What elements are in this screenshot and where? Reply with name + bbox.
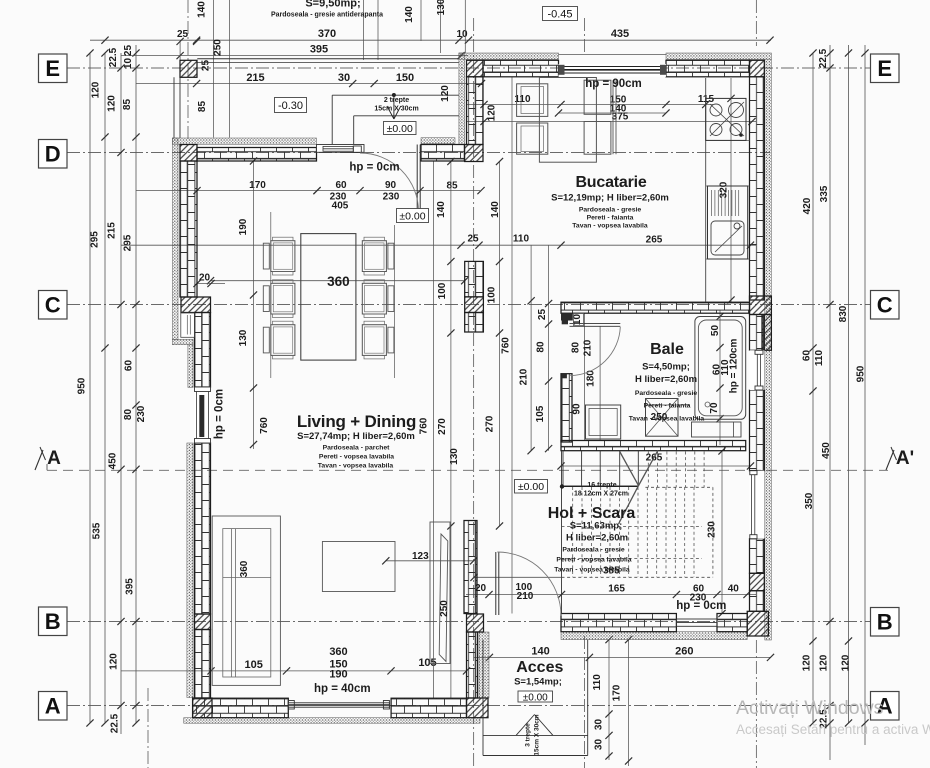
svg-text:-0.30: -0.30	[278, 100, 303, 112]
hol bottom dims 165/60/40 230	[466, 594, 756, 596]
bale cabinet below tub	[692, 422, 742, 437]
hol south wall west	[561, 614, 676, 632]
svg-text:210: 210	[519, 368, 530, 385]
left wall above B	[195, 443, 211, 614]
svg-text:150: 150	[396, 72, 414, 84]
kitchen top dims 110/150/140/375	[466, 104, 713, 106]
level marker -0.45	[543, 7, 578, 21]
grid bubble A	[39, 692, 68, 721]
svg-text:Hol + Scara: Hol + Scara	[548, 505, 636, 522]
section marker A left	[35, 450, 43, 470]
svg-text:E: E	[877, 56, 892, 81]
svg-text:140: 140	[197, 1, 208, 18]
svg-text:295: 295	[123, 234, 134, 251]
svg-text:270: 270	[485, 415, 496, 432]
level marker -0.30	[275, 98, 307, 113]
svg-text:15cm X 30cm: 15cm X 30cm	[534, 714, 541, 755]
section marker A' right	[886, 450, 894, 470]
svg-text:10: 10	[456, 29, 468, 40]
svg-text:S=27,74mp; H liber=2,60m: S=27,74mp; H liber=2,60m	[297, 431, 415, 442]
kitchen sink	[708, 186, 748, 259]
porch steps arrow 3 trepte	[516, 715, 535, 736]
svg-text:30: 30	[338, 72, 350, 84]
svg-text:hp = 90cm: hp = 90cm	[585, 78, 642, 90]
dim 385	[474, 576, 562, 578]
svg-text:120: 120	[487, 104, 498, 121]
column right-C	[750, 296, 772, 315]
svg-text:395: 395	[125, 578, 136, 595]
svg-text:C: C	[45, 293, 61, 318]
grid bubble C	[871, 291, 900, 320]
svg-text:Bale: Bale	[650, 341, 684, 358]
svg-text:215: 215	[107, 222, 118, 239]
top dim line 215/30/150	[136, 83, 482, 85]
svg-text:115: 115	[698, 94, 715, 105]
column at E grid	[180, 60, 197, 77]
svg-text:210: 210	[583, 339, 594, 356]
insulation kitchen west wall	[459, 53, 465, 145]
svg-text:25: 25	[467, 234, 479, 245]
grid bubble E	[39, 54, 68, 83]
terrace edge at E	[197, 58, 459, 60]
right wall kitchen	[750, 77, 765, 300]
svg-text:420: 420	[802, 197, 813, 214]
column left-B	[195, 614, 211, 630]
svg-text:350: 350	[804, 492, 815, 509]
top wall east of window	[666, 60, 750, 77]
insulation top wall east	[666, 53, 771, 59]
bottom dims 105/360/150/190/105	[121, 670, 467, 672]
coffee table	[322, 542, 395, 592]
column NE corner	[750, 60, 765, 77]
svg-text:100: 100	[487, 286, 498, 303]
svg-text:hp = 120cm: hp = 120cm	[729, 339, 740, 394]
column SE corner hol	[747, 611, 768, 636]
living width dim 360	[211, 280, 465, 282]
svg-text:120: 120	[109, 653, 120, 670]
svg-text:Pereti - faianta: Pereti - faianta	[644, 403, 691, 410]
svg-text:S=9,50mp;: S=9,50mp;	[305, 0, 360, 10]
svg-text:2 trepte: 2 trepte	[384, 97, 409, 104]
wc tank	[574, 313, 584, 325]
svg-text:395: 395	[310, 44, 328, 56]
svg-text:±0.00: ±0.00	[518, 481, 544, 493]
dim 123	[386, 560, 474, 562]
column kitchen-D	[465, 145, 483, 162]
column right wall lower	[750, 573, 765, 590]
svg-text:10: 10	[123, 58, 134, 70]
svg-text:230: 230	[383, 192, 400, 203]
svg-text:85: 85	[197, 101, 208, 113]
svg-text:250: 250	[439, 600, 450, 617]
svg-text:Acces: Acces	[516, 659, 563, 676]
svg-text:H liber=2,60m: H liber=2,60m	[566, 533, 628, 544]
svg-text:120: 120	[107, 95, 118, 112]
svg-text:70: 70	[709, 402, 720, 414]
acces porch outline	[482, 640, 484, 756]
svg-text:295: 295	[90, 231, 101, 248]
grid column 2	[473, 18, 475, 768]
stove	[706, 98, 746, 140]
svg-text:190: 190	[329, 669, 347, 681]
grid line C	[67, 304, 870, 306]
hol south wall east	[717, 614, 747, 632]
svg-text:25: 25	[201, 60, 212, 72]
svg-text:Pardoseala - parchet: Pardoseala - parchet	[323, 445, 391, 452]
D wall east segment	[421, 145, 464, 162]
stair dashed treads upper right	[647, 452, 649, 488]
door bale	[570, 322, 621, 324]
level marker &#177;0.00	[518, 691, 553, 702]
svg-text:A: A	[47, 448, 61, 469]
svg-text:Pardoseala - gresie: Pardoseala - gresie	[635, 390, 698, 397]
grid line E	[67, 67, 870, 69]
svg-text:Tavan - vopsea lavabila: Tavan - vopsea lavabila	[554, 567, 630, 574]
kitchen west wall	[467, 77, 484, 145]
D wall west segment	[197, 148, 317, 162]
svg-text:Accesați Setări pentru a activ: Accesați Setări pentru a activa Wi	[736, 722, 930, 737]
grid line A	[67, 705, 870, 707]
svg-text:100: 100	[437, 282, 448, 299]
tv cabinet right	[430, 522, 450, 664]
top wall west of window	[483, 60, 559, 77]
svg-text:Tavan - vopsea lavabila: Tavan - vopsea lavabila	[629, 416, 705, 423]
svg-text:260: 260	[675, 646, 693, 658]
svg-text:230: 230	[136, 405, 147, 422]
svg-text:120: 120	[91, 81, 102, 98]
insulation bottom wall	[184, 718, 480, 724]
svg-text:Pardoseala - gresie antiderapa: Pardoseala - gresie antiderapanta	[271, 12, 383, 19]
living door dims 60/90/85 230 230 405	[136, 190, 480, 192]
svg-text:30: 30	[594, 719, 605, 731]
svg-text:110: 110	[814, 349, 825, 366]
svg-text:140: 140	[490, 201, 501, 218]
right dimension chain lines	[812, 53, 814, 723]
right wall above B	[750, 591, 765, 612]
left wall D-C	[180, 161, 197, 297]
svg-text:Tavan - vopsea lavabila: Tavan - vopsea lavabila	[318, 463, 394, 470]
svg-text:170: 170	[249, 180, 266, 191]
window left wall (hp=0cm rotated)	[195, 387, 211, 443]
column right-C outer strip	[762, 315, 771, 351]
svg-text:360: 360	[329, 646, 347, 658]
window outer sill line	[559, 54, 667, 56]
svg-text:370: 370	[318, 28, 336, 40]
mid stub wall lower	[465, 313, 484, 333]
svg-text:110: 110	[592, 674, 603, 691]
svg-text:22.5: 22.5	[110, 713, 121, 733]
svg-text:B: B	[877, 610, 893, 635]
svg-text:105: 105	[535, 405, 546, 422]
svg-text:170: 170	[611, 684, 622, 701]
svg-text:60: 60	[802, 350, 813, 362]
tub drain	[705, 402, 710, 407]
svg-text:A: A	[45, 694, 61, 719]
svg-text:-0.45: -0.45	[547, 8, 572, 20]
svg-text:25: 25	[123, 45, 134, 57]
dining chairs	[271, 241, 295, 272]
grid column 1	[187, 0, 189, 140]
mid dim line 25/110/265	[121, 244, 756, 246]
svg-text:270: 270	[437, 418, 448, 435]
svg-text:15cm X 30cm: 15cm X 30cm	[374, 106, 418, 113]
svg-text:105: 105	[418, 657, 436, 669]
insulation top wall west	[459, 53, 559, 59]
grid column 4 bottom	[755, 640, 757, 768]
level marker &#177;0.00	[384, 122, 417, 135]
shower / sink square	[586, 405, 621, 439]
svg-text:30: 30	[594, 739, 605, 751]
svg-text:hp = 0cm: hp = 0cm	[214, 389, 226, 439]
column living SE corner	[467, 698, 489, 718]
column kitchen NW	[467, 60, 484, 77]
svg-text:230: 230	[707, 521, 718, 538]
stair left edge	[561, 451, 563, 614]
grid bubble B	[871, 608, 900, 637]
top dim line 370/10/435	[90, 39, 771, 41]
svg-text:hp = 0cm: hp = 0cm	[676, 600, 726, 612]
svg-text:±0.00: ±0.00	[387, 123, 413, 135]
svg-text:hp = 0cm: hp = 0cm	[349, 162, 399, 174]
svg-text:H liber=2,60m: H liber=2,60m	[635, 374, 697, 385]
svg-text:450: 450	[821, 442, 832, 459]
svg-text:360: 360	[239, 560, 250, 577]
grid line D	[67, 152, 770, 154]
svg-text:140: 140	[531, 646, 549, 658]
insulation D wall left	[173, 138, 317, 144]
svg-text:140: 140	[404, 6, 415, 23]
column left-C	[181, 297, 211, 313]
svg-text:S=11,63mp;: S=11,63mp;	[570, 521, 623, 532]
svg-text:120: 120	[802, 654, 813, 671]
svg-text:140: 140	[436, 201, 447, 218]
living witness lines	[270, 212, 272, 378]
svg-text:hp = 40cm: hp = 40cm	[314, 683, 371, 695]
svg-text:25: 25	[537, 309, 548, 321]
insulation living east wall lower	[479, 632, 489, 698]
column left-D corner	[180, 145, 197, 162]
living south wall west	[193, 698, 289, 718]
kitchen-bale wall	[561, 302, 750, 313]
insulation D wall right	[421, 138, 455, 144]
svg-text:250: 250	[213, 39, 224, 56]
svg-text:760: 760	[259, 417, 270, 434]
grid bubble B	[39, 607, 68, 636]
window hol south (hp=0cm)	[676, 619, 717, 626]
insulation left wall lower	[187, 443, 193, 698]
column mid stub	[465, 297, 484, 313]
svg-text:Tavan - vopsea lavabila: Tavan - vopsea lavabila	[572, 223, 648, 230]
svg-text:320: 320	[719, 181, 730, 198]
svg-text:105: 105	[245, 659, 263, 671]
kitchen chairs	[517, 84, 548, 117]
svg-text:830: 830	[838, 305, 849, 322]
door D wall into living	[416, 145, 418, 210]
svg-text:120: 120	[440, 85, 451, 102]
living south wall east	[391, 698, 466, 718]
svg-text:18 12cm X 27cm: 18 12cm X 27cm	[574, 491, 628, 498]
svg-text:405: 405	[332, 201, 349, 212]
stair arrow	[560, 484, 564, 488]
sofa cabinet left	[212, 516, 280, 685]
svg-text:535: 535	[92, 522, 103, 539]
grid bubble D	[39, 140, 68, 169]
svg-text:265: 265	[646, 235, 663, 246]
svg-text:C: C	[877, 293, 893, 318]
svg-text:80: 80	[536, 341, 547, 353]
dining table	[301, 234, 356, 361]
svg-text:S=1,54mp;: S=1,54mp;	[514, 677, 562, 688]
stair treads solid	[562, 451, 564, 486]
bale door frame blocks	[561, 313, 573, 320]
svg-text:760: 760	[501, 337, 512, 354]
svg-text:Pardoseala - gresie: Pardoseala - gresie	[562, 547, 625, 554]
svg-text:215: 215	[246, 72, 264, 84]
svg-text:360: 360	[327, 274, 350, 289]
bottom dims 140/260	[474, 656, 771, 658]
living east wall upper	[464, 521, 477, 614]
svg-text:D: D	[45, 142, 61, 167]
svg-text:S=4,50mp;: S=4,50mp;	[642, 362, 690, 373]
svg-text:123: 123	[412, 551, 429, 562]
svg-text:165: 165	[608, 584, 625, 595]
insulation left wall upper	[172, 138, 178, 339]
bale west wall lower	[561, 374, 572, 442]
column left-A corner	[193, 698, 212, 718]
svg-text:950: 950	[77, 377, 88, 394]
dim 170 / 20	[197, 283, 225, 285]
svg-text:Pardoseala - gresie: Pardoseala - gresie	[579, 207, 642, 214]
svg-text:E: E	[45, 56, 60, 81]
step arrow	[392, 93, 396, 97]
svg-text:760: 760	[419, 417, 430, 434]
insulation right wall	[765, 59, 772, 640]
svg-text:130: 130	[449, 448, 460, 465]
grid column 4 top	[755, 0, 757, 46]
svg-text:Activați Windows: Activați Windows	[736, 697, 884, 719]
svg-text:120: 120	[819, 654, 830, 671]
kitchen table	[539, 78, 596, 163]
washing machine	[646, 399, 679, 437]
svg-text:90: 90	[572, 403, 583, 415]
svg-text:22.5: 22.5	[818, 48, 829, 68]
svg-text:110: 110	[513, 234, 530, 245]
grid line B	[67, 621, 870, 623]
right wall below C column	[750, 315, 765, 351]
svg-text:B: B	[45, 609, 61, 634]
svg-text:80: 80	[571, 342, 582, 354]
grid column 3 bottom	[584, 636, 586, 768]
svg-text:210: 210	[517, 591, 534, 602]
mid stub wall upper	[465, 261, 484, 297]
svg-text:130: 130	[238, 329, 249, 346]
insulation left wall step	[172, 339, 193, 344]
window right wall bale (hp=120cm)	[750, 350, 765, 390]
kitchen counter	[705, 78, 707, 302]
section line A-A'	[47, 469, 888, 471]
insulation hol bottom wall	[561, 632, 747, 640]
bale width dim 265	[561, 465, 751, 467]
window D wall (hp=0cm)	[317, 145, 365, 153]
entry steps 2 trepte	[332, 94, 459, 96]
window top wall (hp=90cm)	[559, 64, 667, 77]
stair landing edge	[562, 485, 639, 487]
interior vertical dim lines	[253, 161, 255, 449]
window right wall hol	[750, 471, 765, 539]
svg-text:3 trepte: 3 trepte	[525, 723, 532, 747]
svg-text:20: 20	[199, 273, 211, 284]
svg-text:Bucatarie: Bucatarie	[575, 174, 646, 191]
left dimension chain lines	[89, 53, 91, 723]
svg-text:85: 85	[446, 181, 458, 192]
svg-text:Living + Dining: Living + Dining	[297, 412, 416, 431]
svg-text:375: 375	[612, 112, 629, 123]
bathtub	[695, 317, 746, 420]
svg-text:60: 60	[124, 360, 135, 372]
level marker &#177;0.00	[397, 209, 429, 223]
svg-text:120: 120	[841, 654, 852, 671]
svg-text:80: 80	[123, 409, 134, 421]
svg-text:±0.00: ±0.00	[523, 692, 548, 703]
svg-text:S=12,19mp; H liber=2,60m: S=12,19mp; H liber=2,60m	[551, 193, 669, 204]
svg-text:Pereti - vopsea lavabila: Pereti - vopsea lavabila	[319, 454, 394, 461]
svg-text:950: 950	[856, 365, 867, 382]
svg-text:±0.00: ±0.00	[399, 210, 425, 222]
svg-text:A': A'	[896, 448, 914, 469]
svg-text:40: 40	[728, 584, 740, 595]
left wall below B	[195, 630, 211, 699]
grid bubble C	[39, 291, 68, 320]
insulation left wall mid	[188, 345, 193, 388]
grid bubble A	[871, 692, 900, 721]
svg-text:450: 450	[108, 452, 119, 469]
svg-text:335: 335	[819, 185, 830, 202]
svg-text:Pereti - faianta: Pereti - faianta	[587, 215, 634, 222]
svg-text:25: 25	[177, 29, 189, 40]
svg-text:130: 130	[436, 0, 447, 15]
grid column 3 top	[584, 18, 586, 53]
right wall below window	[750, 539, 765, 574]
bale south wall	[561, 441, 746, 451]
svg-text:435: 435	[611, 28, 629, 40]
right wall mid	[750, 390, 765, 471]
left wall niche	[181, 313, 195, 337]
window living south (hp=40cm)	[288, 703, 389, 707]
column living east-B	[467, 614, 484, 632]
stair treads dashed (above cut)	[572, 487, 574, 577]
living east wall lower	[467, 632, 478, 698]
left wall below C	[195, 313, 211, 388]
svg-text:50: 50	[710, 325, 721, 337]
svg-text:Pereti - vopsea lavabila: Pereti - vopsea lavabila	[556, 557, 631, 564]
door hol entry	[495, 552, 497, 615]
svg-text:190: 190	[238, 218, 249, 235]
svg-text:16 trepte: 16 trepte	[587, 482, 616, 489]
grid bubble E	[871, 54, 900, 83]
svg-text:85: 85	[122, 99, 133, 111]
svg-text:90: 90	[385, 180, 397, 191]
stair dashed outline	[645, 486, 713, 488]
grid column 0 bottom	[147, 688, 149, 768]
level marker &#177;0.00	[515, 480, 548, 494]
svg-text:60: 60	[335, 180, 347, 191]
svg-text:22.5: 22.5	[108, 47, 119, 67]
top dim line 395	[121, 55, 468, 57]
